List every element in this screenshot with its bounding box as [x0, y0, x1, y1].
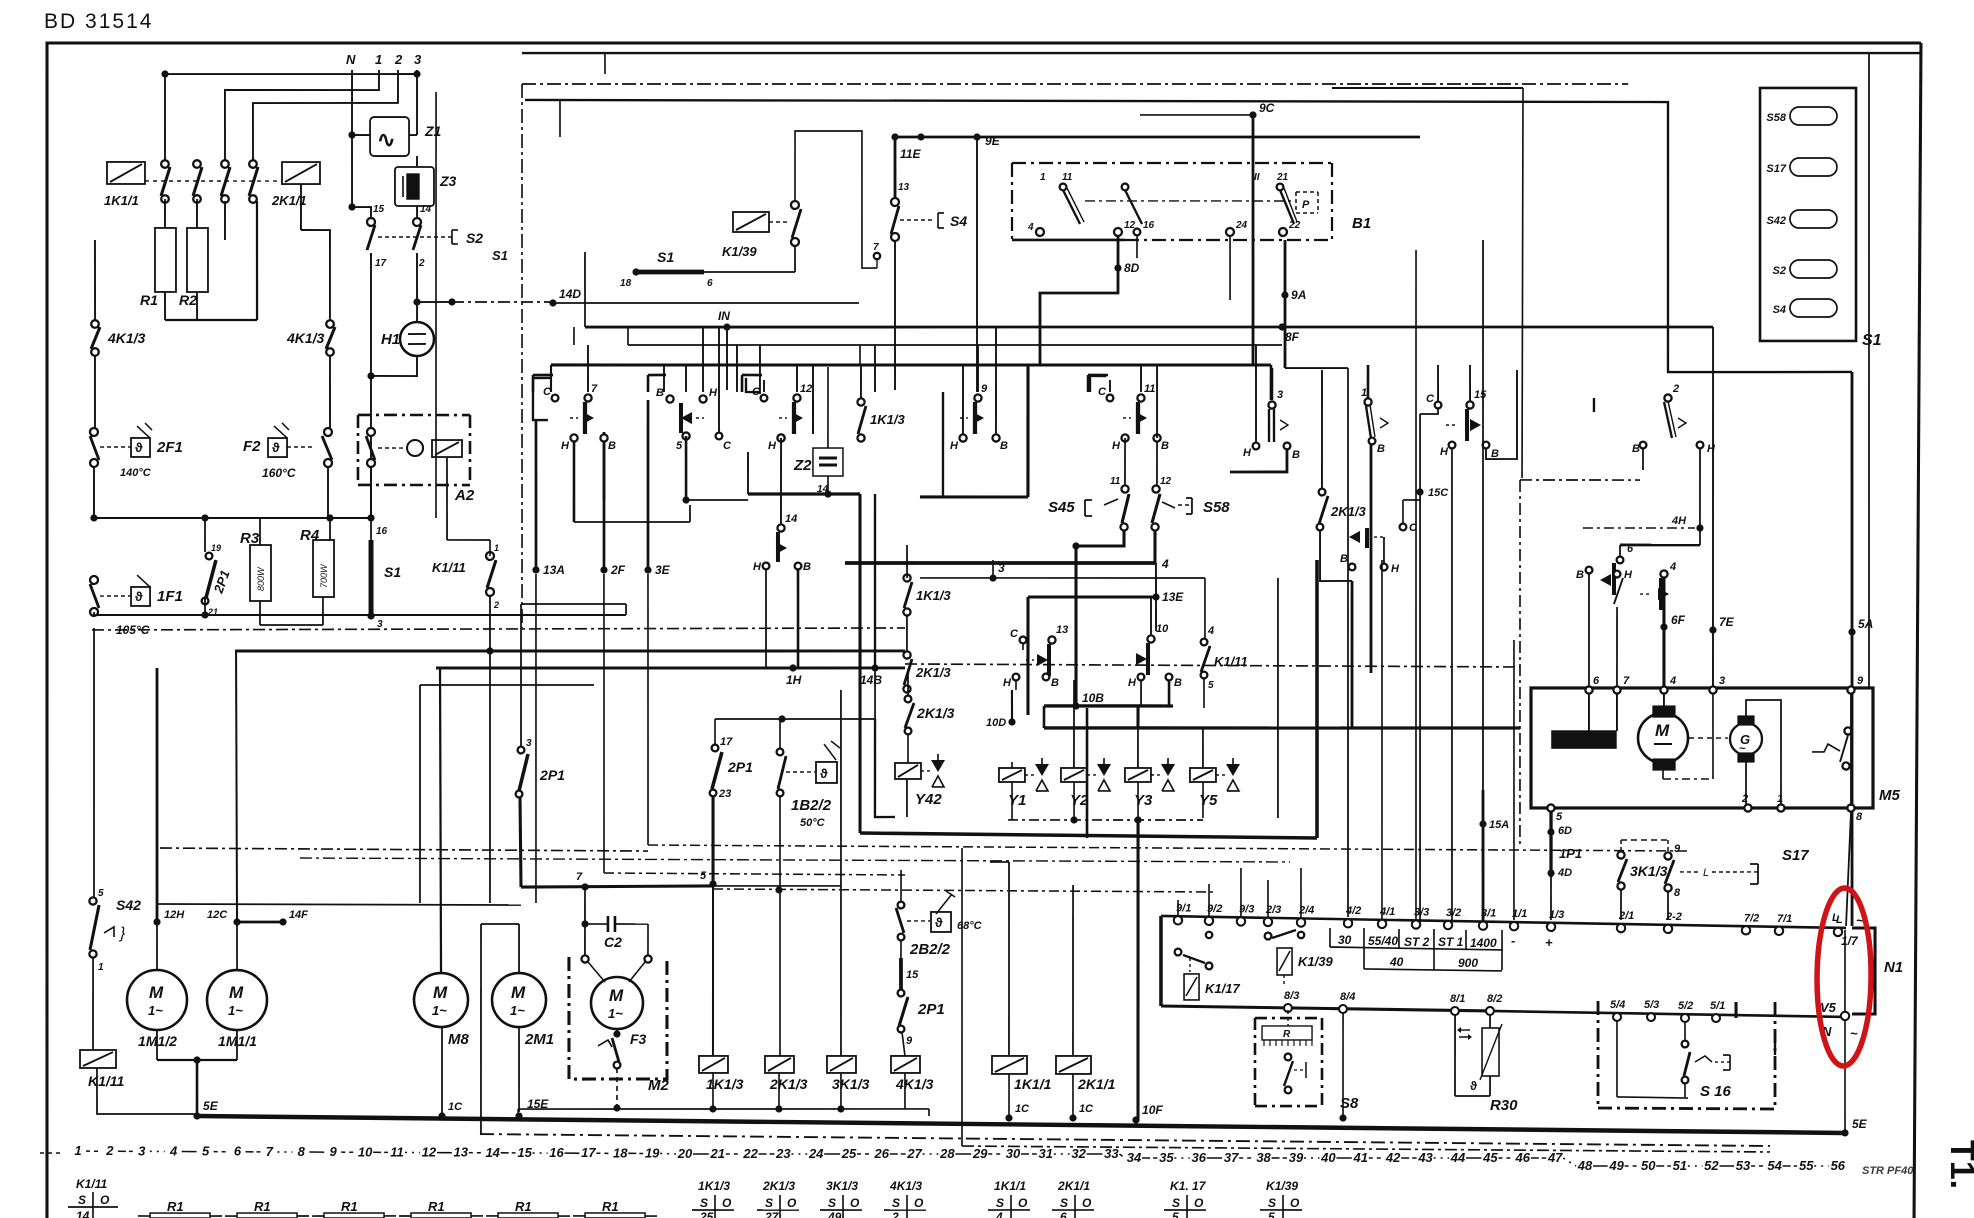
switch 1K1/3 mid: [903, 545, 952, 652]
wire B1 bottom bar: [1012, 234, 1231, 300]
svg-text:S45: S45: [1048, 499, 1075, 516]
wire 4H net: [1583, 447, 1704, 532]
svg-text:8: 8: [298, 1144, 306, 1159]
lamp H1: [381, 322, 434, 356]
svg-text:H: H: [1112, 440, 1121, 452]
svg-text:}: }: [118, 925, 126, 942]
svg-text:R1: R1: [140, 292, 158, 308]
svg-text:S4: S4: [1773, 304, 1786, 316]
svg-text:-: -: [1511, 933, 1515, 948]
contact set B H right: [1340, 528, 1401, 575]
wire H col down: [573, 442, 690, 523]
svg-text:5: 5: [1556, 811, 1563, 823]
svg-text:Y42: Y42: [915, 791, 942, 808]
switch 2K1/3 y: [904, 669, 955, 763]
svg-text:O: O: [1194, 1196, 1204, 1210]
wire 8/4 drop: [1339, 1013, 1347, 1122]
contact bank K1/1: [145, 159, 282, 203]
switch S45: [1048, 475, 1129, 530]
svg-text:6D: 6D: [1558, 825, 1572, 837]
svg-text:B: B: [1576, 569, 1584, 581]
svg-text:2: 2: [493, 600, 499, 610]
relay K1/39 top: [722, 130, 878, 273]
wire strip risers: [1178, 558, 1385, 920]
svg-text:2: 2: [1672, 383, 1679, 395]
svg-text:BD 31514: BD 31514: [44, 10, 153, 33]
svg-text:R1: R1: [254, 1199, 271, 1214]
svg-text:11E: 11E: [900, 147, 921, 161]
contact set 1: [1360, 387, 1388, 455]
svg-text:1C: 1C: [448, 1101, 463, 1113]
wire H1 bottom: [367, 356, 417, 380]
svg-text:O: O: [914, 1196, 924, 1210]
svg-text:Z1: Z1: [424, 123, 442, 139]
svg-text:5E: 5E: [203, 1099, 219, 1113]
svg-text:21: 21: [710, 1146, 725, 1161]
wire A2 down: [370, 457, 447, 540]
resistor R2: [179, 228, 209, 308]
svg-text:17: 17: [581, 1145, 596, 1160]
switch F3: [597, 1031, 646, 1112]
svg-text:27: 27: [764, 1210, 780, 1218]
svg-text:1C: 1C: [1015, 1103, 1030, 1115]
svg-text:22: 22: [742, 1146, 758, 1161]
svg-text:24: 24: [1235, 220, 1248, 231]
wire junction row y518: [90, 512, 374, 524]
svg-text:53: 53: [1736, 1158, 1751, 1173]
resistor R3 800W: [239, 530, 271, 601]
svg-text:2/1: 2/1: [1618, 910, 1634, 922]
svg-text:H: H: [1707, 443, 1716, 455]
svg-text:F2: F2: [243, 438, 261, 455]
svg-text:4: 4: [995, 1210, 1003, 1218]
svg-text:ST 2: ST 2: [1404, 935, 1430, 949]
wire 5A vertical: [1848, 372, 1857, 926]
wire dashdot bottom box: [480, 1134, 1770, 1146]
svg-text:15: 15: [1474, 389, 1487, 401]
svg-text:N: N: [346, 52, 356, 67]
wire 7E: [1709, 327, 1737, 690]
svg-text:17: 17: [375, 258, 387, 269]
contact set 12: [741, 375, 812, 494]
svg-text:2: 2: [418, 258, 425, 269]
svg-text:S17: S17: [1782, 847, 1809, 864]
wire x962 rail: [960, 848, 1773, 1152]
wire y903 rail: [157, 902, 521, 907]
svg-text:K1/11: K1/11: [88, 1073, 125, 1089]
wire left drop: [164, 74, 165, 162]
svg-text:10: 10: [358, 1144, 373, 1159]
svg-text:O: O: [787, 1196, 797, 1210]
brush bar M5: [1552, 693, 1617, 748]
wire M5 right edge: [1864, 53, 1874, 688]
svg-text:1~: 1~: [510, 1003, 525, 1018]
svg-text:O: O: [850, 1196, 860, 1210]
svg-text:B: B: [656, 387, 664, 399]
switch A2: [366, 428, 462, 468]
switch K1/11 mid: [1200, 578, 1248, 708]
svg-text:2F: 2F: [610, 563, 626, 577]
svg-text:40: 40: [1389, 955, 1404, 969]
svg-text:12C: 12C: [207, 909, 228, 921]
svg-text:15A: 15A: [1489, 819, 1509, 831]
svg-text:1K1/3: 1K1/3: [706, 1076, 744, 1092]
svg-text:1: 1: [1361, 387, 1367, 399]
svg-text:16: 16: [1143, 220, 1155, 231]
svg-text:ST 1: ST 1: [1438, 935, 1464, 949]
valve Y1: [999, 758, 1049, 821]
node 3E: [642, 400, 1693, 853]
wire x1416 col: [1411, 250, 1421, 920]
svg-text:7/2: 7/2: [1744, 912, 1759, 924]
svg-text:K1/39: K1/39: [1298, 954, 1333, 969]
valve Y3: [1125, 706, 1176, 820]
svg-text:4K1/3: 4K1/3: [889, 1179, 922, 1193]
svg-text:S: S: [78, 1193, 86, 1207]
contact set 13: [1003, 624, 1068, 690]
svg-text:4D: 4D: [1557, 867, 1572, 879]
svg-text:44: 44: [1450, 1150, 1466, 1165]
wire N: [352, 70, 353, 135]
svg-text:51: 51: [1673, 1158, 1687, 1173]
svg-text:11: 11: [1110, 476, 1121, 487]
contact set 7: [532, 375, 616, 453]
svg-text:C: C: [543, 386, 552, 398]
svg-text:900: 900: [1458, 956, 1478, 970]
svg-text:1~: 1~: [608, 1006, 623, 1021]
buttons S panel: [1765, 106, 1884, 349]
wire x1514 col: [1512, 640, 1516, 920]
terminal strip program switch: [1161, 902, 1864, 936]
svg-text:A2: A2: [454, 487, 475, 504]
wire y719 link: [715, 715, 875, 723]
svg-text:IN: IN: [718, 309, 730, 323]
svg-text:2M1: 2M1: [524, 1031, 554, 1048]
svg-text:10F: 10F: [1142, 1103, 1163, 1117]
svg-text:6: 6: [707, 278, 713, 289]
svg-text:H: H: [1003, 677, 1012, 689]
svg-text:5: 5: [1208, 680, 1214, 691]
svg-text:1/1: 1/1: [1512, 908, 1527, 920]
svg-text:4: 4: [169, 1144, 178, 1159]
contact set C right: [1420, 393, 1441, 414]
svg-text:M5: M5: [1879, 787, 1900, 804]
svg-text:M: M: [609, 986, 624, 1005]
svg-text:3: 3: [1277, 389, 1283, 401]
svg-text:S42: S42: [116, 897, 141, 913]
svg-text:3E: 3E: [655, 563, 671, 577]
wire x1076 down: [1074, 546, 1280, 839]
svg-text:2K1/3: 2K1/3: [769, 1076, 808, 1092]
svg-text:3: 3: [414, 52, 422, 67]
motor 2M1: [479, 924, 555, 1135]
svg-text:21: 21: [1276, 172, 1289, 183]
svg-text:1/7: 1/7: [1841, 934, 1859, 948]
svg-text:15: 15: [373, 204, 385, 215]
program cam P: [1085, 190, 1318, 213]
svg-text:3/3: 3/3: [1414, 906, 1429, 918]
svg-text:5/2: 5/2: [1678, 1000, 1693, 1012]
svg-text:Y5: Y5: [1199, 792, 1218, 809]
svg-text:8/4: 8/4: [1340, 991, 1355, 1003]
svg-text:34: 34: [1127, 1150, 1142, 1165]
svg-text:23: 23: [718, 788, 731, 800]
wire 5E bus: [197, 1116, 1845, 1133]
module S8: [1254, 990, 1360, 1112]
svg-text:12: 12: [422, 1145, 437, 1160]
wire 13E col: [1155, 563, 1156, 631]
svg-text:42: 42: [1385, 1150, 1401, 1165]
wire left col: [93, 240, 96, 428]
svg-text:1P1: 1P1: [1559, 846, 1582, 861]
svg-text:45: 45: [1482, 1150, 1498, 1165]
wire 15C net: [1396, 414, 1449, 923]
node V5: [1820, 1000, 1859, 1041]
svg-text:11: 11: [1062, 172, 1073, 183]
svg-text:S2: S2: [466, 230, 483, 246]
svg-text:9: 9: [981, 383, 988, 395]
svg-text:1~: 1~: [228, 1003, 243, 1018]
contact set 6: [1576, 563, 1633, 595]
svg-text:6: 6: [1593, 675, 1600, 687]
svg-text:40: 40: [1320, 1150, 1336, 1165]
resistor R30: [1449, 993, 1519, 1115]
svg-text:S1: S1: [384, 564, 401, 580]
svg-text:3: 3: [526, 738, 532, 749]
svg-text:B: B: [1161, 440, 1169, 452]
relay 1K1/1 coil: [104, 162, 145, 209]
svg-text:S: S: [700, 1196, 708, 1210]
wire phase2: [252, 69, 398, 163]
svg-text:4/2: 4/2: [1345, 905, 1361, 917]
svg-text:3: 3: [138, 1143, 146, 1158]
svg-text:S: S: [828, 1196, 836, 1210]
node 13A: [530, 420, 566, 903]
svg-text:20: 20: [677, 1146, 693, 1161]
svg-text:11: 11: [1144, 383, 1155, 395]
svg-text:9: 9: [330, 1144, 338, 1159]
svg-text:L: L: [1703, 867, 1709, 879]
contact set 15: [1440, 389, 1500, 460]
svg-text:+: +: [1545, 935, 1553, 950]
svg-text:26: 26: [874, 1146, 890, 1161]
svg-text:M: M: [149, 983, 164, 1002]
svg-text:47: 47: [1547, 1150, 1563, 1165]
svg-text:H: H: [1440, 446, 1449, 458]
motor 1M1/1: [207, 970, 268, 1060]
svg-text:ϑ: ϑ: [135, 589, 143, 604]
svg-text:1H: 1H: [786, 673, 802, 687]
svg-text:L: L: [1832, 912, 1839, 924]
svg-text:8/1: 8/1: [1450, 993, 1465, 1005]
switch 2B2/2: [896, 870, 983, 959]
svg-text:7/1: 7/1: [1777, 913, 1792, 925]
svg-text:2P1: 2P1: [539, 767, 565, 783]
svg-text:39: 39: [1289, 1150, 1304, 1165]
svg-text:K1/11: K1/11: [76, 1177, 107, 1191]
wire 1H 14B bus: [436, 567, 906, 688]
relay 1K1/3 coil: [699, 886, 746, 1113]
switch 2K1/3 mid: [903, 651, 952, 693]
svg-text:6: 6: [1060, 1210, 1067, 1218]
svg-text:M: M: [511, 983, 526, 1002]
switch S4: [873, 182, 968, 269]
svg-text:17: 17: [720, 736, 733, 748]
wire N to S2: [348, 135, 371, 218]
svg-text:9: 9: [1674, 843, 1681, 855]
svg-text:S1: S1: [492, 248, 508, 263]
contact set 2: [1632, 383, 1717, 456]
svg-text:1K1/3: 1K1/3: [870, 412, 905, 427]
svg-text:R30: R30: [1490, 1097, 1518, 1114]
wire 8D: [1039, 235, 1140, 365]
motor 1M1/2: [127, 970, 188, 1060]
svg-text:1F1: 1F1: [157, 588, 183, 605]
svg-text:22: 22: [1288, 220, 1301, 231]
svg-text:C: C: [723, 440, 732, 452]
wire R bottom bus: [165, 200, 258, 321]
svg-text:H: H: [1243, 447, 1252, 459]
svg-text:140°C: 140°C: [120, 467, 152, 479]
wire G nets: [1663, 694, 1782, 807]
motor M2: [581, 955, 652, 1038]
svg-text:19: 19: [211, 543, 221, 553]
svg-text:T1.: T1.: [1943, 1140, 1974, 1189]
svg-text:C: C: [1098, 386, 1107, 398]
svg-text:K1/17: K1/17: [1205, 981, 1240, 996]
svg-text:14D: 14D: [559, 287, 581, 301]
svg-text:5E: 5E: [1852, 1117, 1868, 1131]
wire H col 15: [1448, 449, 1455, 920]
svg-text:4: 4: [1027, 222, 1034, 233]
contact set 3: [1243, 389, 1301, 461]
wire S2L down: [369, 253, 373, 518]
switch S2: [367, 204, 484, 270]
svg-text:2: 2: [1741, 793, 1748, 805]
switch 4K1/3 left: [91, 320, 146, 356]
wire set2 down: [682, 436, 748, 504]
svg-text:3K1/3: 3K1/3: [1630, 863, 1668, 879]
svg-text:15: 15: [517, 1145, 532, 1160]
module A2: [357, 414, 475, 504]
wire Z1 to 3: [409, 134, 417, 136]
svg-text:9A: 9A: [1291, 288, 1306, 302]
switch 2K1/3 right: [1317, 489, 1367, 531]
svg-text:S: S: [996, 1196, 1004, 1210]
svg-text:5: 5: [1268, 1210, 1275, 1218]
wire big box: [857, 494, 1319, 838]
svg-text:Y3: Y3: [1134, 792, 1153, 809]
svg-text:4K1/3: 4K1/3: [895, 1076, 934, 1092]
svg-text:23: 23: [775, 1146, 791, 1161]
svg-text:S1: S1: [657, 249, 674, 265]
node 10F: [1132, 1103, 1163, 1124]
wire x1322 col: [1321, 370, 1323, 488]
svg-text:38: 38: [1256, 1150, 1271, 1165]
module N1: [1851, 928, 1903, 1015]
svg-text:68°C: 68°C: [957, 920, 983, 932]
svg-text:49: 49: [827, 1210, 842, 1218]
wire misc mid cols: [726, 327, 860, 395]
svg-text:48: 48: [1577, 1158, 1593, 1173]
table ST: [1330, 928, 1553, 972]
svg-text:M: M: [229, 983, 244, 1002]
svg-text:S1: S1: [1862, 332, 1882, 349]
node 2F: [598, 432, 908, 875]
svg-text:R1: R1: [167, 1199, 184, 1214]
generator G: [1689, 715, 1762, 762]
svg-text:4H: 4H: [1671, 515, 1687, 527]
wire B col down: [602, 442, 606, 500]
switch S42: [89, 628, 144, 973]
relay 2K1/1 coil: [271, 162, 320, 209]
svg-text:S58: S58: [1766, 112, 1786, 124]
node N 1 2 3 labels: [346, 51, 422, 67]
wire bus y365 thick: [550, 359, 1271, 499]
svg-text:7: 7: [873, 242, 879, 253]
wire x977 col: [971, 133, 980, 392]
svg-text:S: S: [1060, 1196, 1068, 1210]
wire thin y685: [418, 684, 594, 905]
wire 13E bus: [1027, 589, 1184, 716]
svg-text:55: 55: [1799, 1158, 1814, 1173]
svg-text:1/3: 1/3: [1549, 909, 1564, 921]
capacitor Z3: [395, 167, 457, 207]
svg-text:S42: S42: [1766, 215, 1786, 227]
svg-text:18: 18: [613, 1145, 628, 1160]
svg-text:25: 25: [699, 1210, 714, 1218]
svg-text:2K1/3: 2K1/3: [916, 705, 955, 721]
svg-text:R: R: [1283, 1029, 1291, 1040]
wire 6 bar: [1617, 527, 1701, 564]
svg-text:H: H: [1128, 677, 1137, 689]
relay 4K1/3 coil: [518, 1029, 934, 1117]
svg-text:B: B: [1051, 677, 1059, 689]
svg-text:7: 7: [591, 383, 598, 395]
switch 4K1/3 mid: [286, 318, 335, 356]
svg-text:2P1: 2P1: [917, 1001, 945, 1018]
svg-text:1400: 1400: [1470, 936, 1497, 950]
resistors R1 bottom row: [138, 1195, 657, 1218]
svg-text:1: 1: [494, 543, 499, 553]
svg-text:S: S: [1268, 1196, 1276, 1210]
switch centrifugal M5: [1812, 727, 1852, 770]
wire y88 right: [1329, 86, 1525, 478]
svg-text:13: 13: [898, 182, 910, 193]
valve Y2: [1061, 680, 1112, 820]
wire S1 18-6 segment: [620, 249, 795, 291]
switch 1B2/2: [776, 719, 840, 829]
contact set 14: [753, 494, 812, 574]
svg-text:31: 31: [1039, 1146, 1053, 1161]
wire top bus y53: [522, 42, 1921, 64]
svg-text:30: 30: [1338, 933, 1352, 947]
svg-text:B1: B1: [1352, 215, 1371, 232]
switch 2P1 third: [515, 604, 567, 887]
wire N to Z1: [348, 131, 370, 138]
svg-text:1: 1: [375, 52, 382, 67]
svg-text:S: S: [1172, 1196, 1180, 1210]
resistor R4 700W: [299, 527, 334, 597]
capacitor Z2: [793, 367, 844, 495]
svg-text:14F: 14F: [289, 909, 308, 921]
wire 2K1 down: [300, 184, 331, 318]
svg-text:700W: 700W: [319, 563, 329, 588]
svg-text:14: 14: [76, 1209, 90, 1218]
svg-text:S: S: [765, 1196, 773, 1210]
svg-text:36: 36: [1192, 1150, 1207, 1165]
svg-text:2K1/3: 2K1/3: [762, 1179, 795, 1193]
